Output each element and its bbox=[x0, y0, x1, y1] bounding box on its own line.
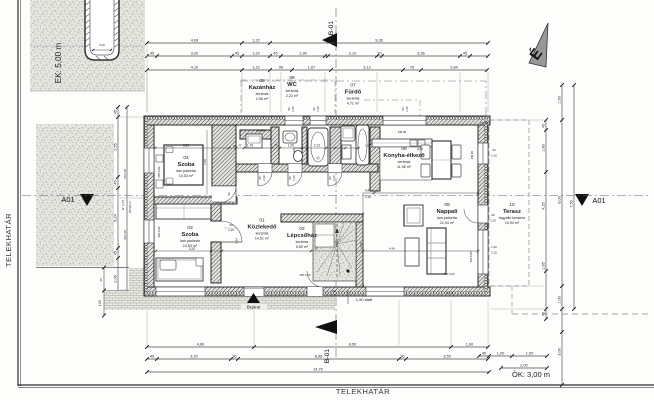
svg-text:45: 45 bbox=[235, 52, 239, 56]
svg-text:95: 95 bbox=[279, 66, 283, 70]
svg-text:TELEKHATÁR: TELEKHATÁR bbox=[336, 387, 390, 396]
svg-text:N° 2,37: N° 2,37 bbox=[121, 200, 125, 211]
svg-text:2,12: 2,12 bbox=[314, 144, 320, 148]
svg-text:1,50: 1,50 bbox=[558, 96, 562, 103]
svg-text:4,25: 4,25 bbox=[542, 202, 546, 209]
svg-text:1,90: 1,90 bbox=[299, 52, 306, 56]
svg-text:EK: 5,00 m: EK: 5,00 m bbox=[54, 43, 63, 84]
svg-text:Nappali: Nappali bbox=[437, 209, 458, 215]
svg-text:1,00: 1,00 bbox=[558, 296, 562, 303]
svg-text:45: 45 bbox=[542, 124, 546, 128]
svg-text:03: 03 bbox=[187, 225, 193, 231]
svg-text:PM 90: PM 90 bbox=[480, 121, 489, 125]
svg-text:1,79: 1,79 bbox=[247, 144, 253, 148]
svg-text:1,65: 1,65 bbox=[542, 262, 546, 269]
svg-text:90: 90 bbox=[314, 247, 318, 251]
svg-text:20: 20 bbox=[377, 52, 381, 56]
svg-text:6,96: 6,96 bbox=[315, 355, 322, 359]
svg-text:2,58: 2,58 bbox=[203, 159, 207, 165]
svg-text:TELEKHATÁR: TELEKHATÁR bbox=[4, 213, 13, 267]
svg-text:1,22: 1,22 bbox=[252, 39, 259, 43]
svg-text:2,10: 2,10 bbox=[491, 251, 497, 255]
svg-text:2,00: 2,00 bbox=[520, 364, 527, 368]
svg-text:PM 0,00: PM 0,00 bbox=[469, 251, 473, 262]
svg-text:4,04: 4,04 bbox=[417, 147, 423, 151]
svg-text:3,12: 3,12 bbox=[363, 66, 370, 70]
svg-text:1,50: 1,50 bbox=[526, 352, 533, 356]
svg-text:45: 45 bbox=[114, 251, 118, 255]
svg-text:4,71 m²: 4,71 m² bbox=[347, 102, 360, 106]
svg-text:1,22: 1,22 bbox=[252, 66, 259, 70]
svg-text:02: 02 bbox=[299, 226, 305, 232]
svg-text:Bejárat: Bejárat bbox=[247, 305, 261, 310]
svg-text:6,00: 6,00 bbox=[558, 196, 562, 203]
svg-text:3,00: 3,00 bbox=[558, 348, 562, 355]
svg-text:1,57: 1,57 bbox=[365, 144, 371, 148]
svg-text:1,60: 1,60 bbox=[491, 245, 497, 249]
svg-text:lam.parketta: lam.parketta bbox=[176, 169, 196, 173]
svg-text:3,24: 3,24 bbox=[235, 238, 239, 244]
svg-text:10: 10 bbox=[509, 202, 515, 208]
svg-text:2,10: 2,10 bbox=[405, 106, 409, 112]
svg-text:2,10: 2,10 bbox=[365, 195, 371, 199]
svg-text:30: 30 bbox=[400, 355, 404, 359]
svg-text:3,20: 3,20 bbox=[190, 355, 197, 359]
svg-text:PM 90: PM 90 bbox=[398, 130, 407, 134]
svg-text:2,84: 2,84 bbox=[450, 66, 457, 70]
svg-text:4,09: 4,09 bbox=[191, 39, 198, 43]
svg-text:1,90 alatt: 1,90 alatt bbox=[356, 297, 373, 302]
svg-text:45: 45 bbox=[114, 180, 118, 184]
svg-text:90: 90 bbox=[491, 213, 495, 217]
svg-text:2,55: 2,55 bbox=[114, 143, 118, 150]
svg-text:11,56 m²: 11,56 m² bbox=[397, 165, 412, 169]
svg-text:Lépcsőház: Lépcsőház bbox=[287, 233, 317, 239]
svg-text:1,80: 1,80 bbox=[542, 144, 546, 151]
svg-text:PM 0,00: PM 0,00 bbox=[157, 226, 161, 237]
svg-text:01: 01 bbox=[259, 218, 265, 224]
svg-text:10,53 m²: 10,53 m² bbox=[179, 174, 194, 178]
svg-text:Terasz: Terasz bbox=[503, 209, 521, 215]
svg-text:PM 90: PM 90 bbox=[470, 150, 474, 159]
svg-text:05: 05 bbox=[259, 78, 265, 84]
svg-text:45: 45 bbox=[463, 52, 467, 56]
svg-text:lam.parketta: lam.parketta bbox=[437, 216, 457, 220]
svg-text:4,48: 4,48 bbox=[365, 189, 371, 193]
svg-text:2,10: 2,10 bbox=[123, 169, 127, 175]
svg-text:45: 45 bbox=[482, 352, 486, 356]
svg-text:08: 08 bbox=[401, 146, 407, 152]
svg-text:2,12: 2,12 bbox=[349, 52, 356, 56]
svg-text:Szoba: Szoba bbox=[181, 232, 199, 238]
svg-text:1,60: 1,60 bbox=[466, 343, 473, 347]
svg-text:4,10: 4,10 bbox=[191, 66, 198, 70]
svg-text:3,36: 3,36 bbox=[417, 52, 424, 56]
svg-text:90: 90 bbox=[229, 223, 233, 227]
svg-text:B-01: B-01 bbox=[328, 21, 335, 36]
svg-text:78: 78 bbox=[410, 66, 414, 70]
svg-text:21,04 m²: 21,04 m² bbox=[440, 221, 455, 225]
svg-text:8,50: 8,50 bbox=[349, 343, 356, 347]
svg-text:14,51 m²: 14,51 m² bbox=[255, 237, 270, 241]
svg-text:PM 0,00: PM 0,00 bbox=[157, 166, 161, 177]
svg-text:3,20: 3,20 bbox=[189, 247, 195, 251]
svg-text:3,55: 3,55 bbox=[443, 355, 450, 359]
svg-text:Szoba: Szoba bbox=[177, 162, 195, 168]
svg-text:2,10: 2,10 bbox=[123, 230, 127, 236]
svg-text:ÖK: 3,00 m: ÖK: 3,00 m bbox=[512, 370, 550, 379]
svg-text:45: 45 bbox=[273, 52, 277, 56]
svg-text:1,67: 1,67 bbox=[308, 66, 315, 70]
svg-text:5,00: 5,00 bbox=[99, 43, 105, 47]
svg-text:Közlekedő: Közlekedő bbox=[248, 225, 277, 231]
svg-text:1,00: 1,00 bbox=[497, 352, 504, 356]
svg-text:2,10: 2,10 bbox=[291, 106, 295, 112]
svg-text:2,10: 2,10 bbox=[490, 219, 496, 223]
svg-text:7,50: 7,50 bbox=[570, 200, 574, 207]
svg-text:2,10: 2,10 bbox=[332, 175, 336, 181]
svg-text:WC: WC bbox=[287, 82, 297, 88]
svg-text:90: 90 bbox=[227, 192, 231, 196]
svg-text:2,22 m²: 2,22 m² bbox=[286, 94, 299, 98]
svg-text:4,40: 4,40 bbox=[359, 242, 363, 248]
svg-text:Fürdő: Fürdő bbox=[345, 90, 362, 96]
svg-text:2,10: 2,10 bbox=[228, 228, 234, 232]
svg-text:2,10: 2,10 bbox=[262, 175, 266, 181]
svg-text:45: 45 bbox=[150, 52, 154, 56]
svg-text:9,36: 9,36 bbox=[375, 39, 382, 43]
svg-text:15,54 m²: 15,54 m² bbox=[505, 221, 520, 225]
svg-text:1,22: 1,22 bbox=[252, 52, 259, 56]
svg-text:3,20: 3,20 bbox=[183, 144, 189, 148]
svg-text:kerámia: kerámia bbox=[398, 160, 411, 164]
svg-text:kerámia: kerámia bbox=[286, 89, 299, 93]
svg-text:45: 45 bbox=[150, 355, 154, 359]
svg-text:45: 45 bbox=[99, 278, 103, 282]
svg-text:04: 04 bbox=[183, 155, 189, 161]
svg-text:PM 0,00: PM 0,00 bbox=[300, 273, 311, 277]
svg-text:45: 45 bbox=[114, 110, 118, 114]
svg-text:5,24: 5,24 bbox=[114, 214, 118, 221]
svg-text:4,60: 4,60 bbox=[197, 343, 204, 347]
svg-text:2,58 m²: 2,58 m² bbox=[256, 97, 269, 101]
svg-text:90: 90 bbox=[492, 148, 496, 152]
svg-text:3,20: 3,20 bbox=[191, 52, 198, 56]
svg-text:Kazánház: Kazánház bbox=[249, 85, 276, 91]
svg-text:PM 0,00: PM 0,00 bbox=[444, 272, 455, 276]
svg-text:A01: A01 bbox=[592, 196, 605, 205]
svg-text:lam.parketta: lam.parketta bbox=[180, 239, 200, 243]
svg-text:30: 30 bbox=[332, 289, 336, 293]
svg-text:1,00: 1,00 bbox=[98, 300, 102, 306]
svg-text:kerámia: kerámia bbox=[347, 97, 360, 101]
svg-text:2,06: 2,06 bbox=[114, 275, 118, 282]
svg-text:25,59 m²: 25,59 m² bbox=[128, 201, 132, 213]
svg-text:fagyálló kerámia: fagyálló kerámia bbox=[499, 216, 525, 220]
svg-text:2,10: 2,10 bbox=[316, 106, 320, 112]
svg-text:1,00: 1,00 bbox=[288, 144, 294, 148]
svg-text:Konyha-étkező: Konyha-étkező bbox=[383, 153, 425, 159]
svg-text:2,10: 2,10 bbox=[491, 154, 497, 158]
svg-text:B-01: B-01 bbox=[324, 349, 331, 364]
svg-text:5,69 m²: 5,69 m² bbox=[296, 245, 309, 249]
svg-text:07: 07 bbox=[350, 83, 356, 89]
svg-text:2,10: 2,10 bbox=[331, 294, 337, 298]
svg-text:09: 09 bbox=[444, 202, 450, 208]
svg-text:A01: A01 bbox=[61, 195, 74, 204]
svg-text:kerámia: kerámia bbox=[256, 232, 269, 236]
svg-text:kerámia: kerámia bbox=[256, 92, 269, 96]
svg-text:kerámia: kerámia bbox=[296, 240, 309, 244]
svg-text:4,94: 4,94 bbox=[389, 247, 395, 251]
svg-text:14,75: 14,75 bbox=[313, 368, 323, 372]
svg-text:30: 30 bbox=[232, 355, 236, 359]
svg-text:2,10: 2,10 bbox=[292, 175, 296, 181]
